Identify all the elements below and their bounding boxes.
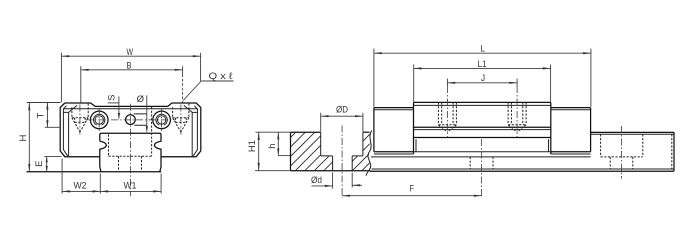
svg-text:W2: W2 [74,181,87,192]
section break line [366,130,372,175]
carriage block outer outline [60,103,201,157]
rail hidden hole right (counterbore) [601,134,643,169]
carriage lower panel [416,139,549,152]
end seal step left [63,105,77,156]
dimension T [35,103,60,128]
carriage bottom edge right [161,156,196,158]
carriage hidden thread hole left [438,102,456,132]
end seal inner contour right [193,106,197,157]
svg-text:L: L [481,44,486,55]
dimension W2 [62,159,100,194]
svg-text:Ø: Ø [137,94,145,105]
svg-text:E: E [34,161,45,167]
main vertical centerline [129,104,131,196]
end seal inner contour left [63,106,67,157]
dimension J [447,73,517,86]
svg-text:J: J [481,73,485,84]
end seal step right [184,105,198,156]
carriage body side edges [414,102,551,154]
counterbore walls [321,132,363,156]
end cap right [551,108,591,154]
ball track centerline right [180,105,182,135]
svg-text:W: W [127,47,134,58]
svg-text:S: S [107,95,118,101]
rail groove line under carriage [371,156,591,158]
svg-text:F: F [410,184,415,195]
rail hidden slot bottom [109,155,152,157]
dimension Od [311,173,362,189]
svg-text:B: B [127,60,132,71]
rail right end [672,132,674,171]
centerline rail hole under carriage [481,139,483,198]
hidden ball track pattern left [72,104,88,132]
end cap left [374,108,414,154]
svg-text:H: H [18,134,29,141]
svg-text:T: T [35,113,46,119]
rail section bottom [291,170,371,172]
rail base / datum line [27,171,162,173]
mounting hole right (threaded) [153,111,171,129]
dimension W [61,47,200,102]
rail section left edge [290,132,292,171]
rail section top right [363,131,370,133]
hidden ball track pattern right [173,104,189,132]
dimension W1 [100,174,161,194]
horizontal centerline through holes [86,119,176,121]
dimension diameter (grease hole callout) [137,94,148,133]
rail hidden slot left line [108,135,110,157]
rail hidden hole under carriage [470,157,493,169]
rail hidden hole right [141,156,143,171]
dimension OD [321,105,363,132]
carriage inner top line [63,108,197,110]
centerline thread hole left [446,86,448,137]
dimension F [342,184,482,197]
dimension L1 [414,59,551,102]
grease slot [134,114,147,125]
rail profile [100,133,161,171]
svg-text:W1: W1 [124,181,137,192]
centerline rail hole right [621,126,623,179]
counterbore bottom [321,155,363,157]
svg-text:Q x ℓ: Q x ℓ [209,71,234,82]
svg-text:ØD: ØD [336,105,348,116]
rail bottom lines [370,169,674,171]
dimension S (thread callout) [107,95,120,121]
rail hidden hole left [118,156,120,171]
carriage body top [414,102,551,105]
carriage hidden thread hole right [508,102,526,132]
dimension H1 [247,132,290,171]
centerline thread hole right [516,86,518,137]
ball track centerline left [79,105,81,135]
bolt hole walls [333,156,353,171]
svg-text:L1: L1 [478,59,487,70]
rail section top left [291,131,321,133]
dimension B [81,60,183,102]
section centerline [341,126,343,198]
vertical centerline right hole [161,108,163,133]
carriage side band lines [414,127,551,137]
vertical centerline left hole [98,108,100,133]
grease hole [126,115,136,125]
mounting hole left (threaded) [90,111,108,129]
carriage bottom edge left [65,156,100,158]
label Q x l with leader [183,71,233,101]
svg-text:h: h [267,143,278,148]
svg-text:H1: H1 [247,140,258,152]
svg-text:Ød: Ød [311,175,322,186]
rail top right segment [591,132,674,134]
dimension h [267,132,290,155]
dimension E [34,157,62,172]
rail hidden slot right line [151,107,153,156]
dimension H [18,103,61,172]
dimension L [374,44,591,107]
carriage bottom line between end caps [414,151,551,153]
